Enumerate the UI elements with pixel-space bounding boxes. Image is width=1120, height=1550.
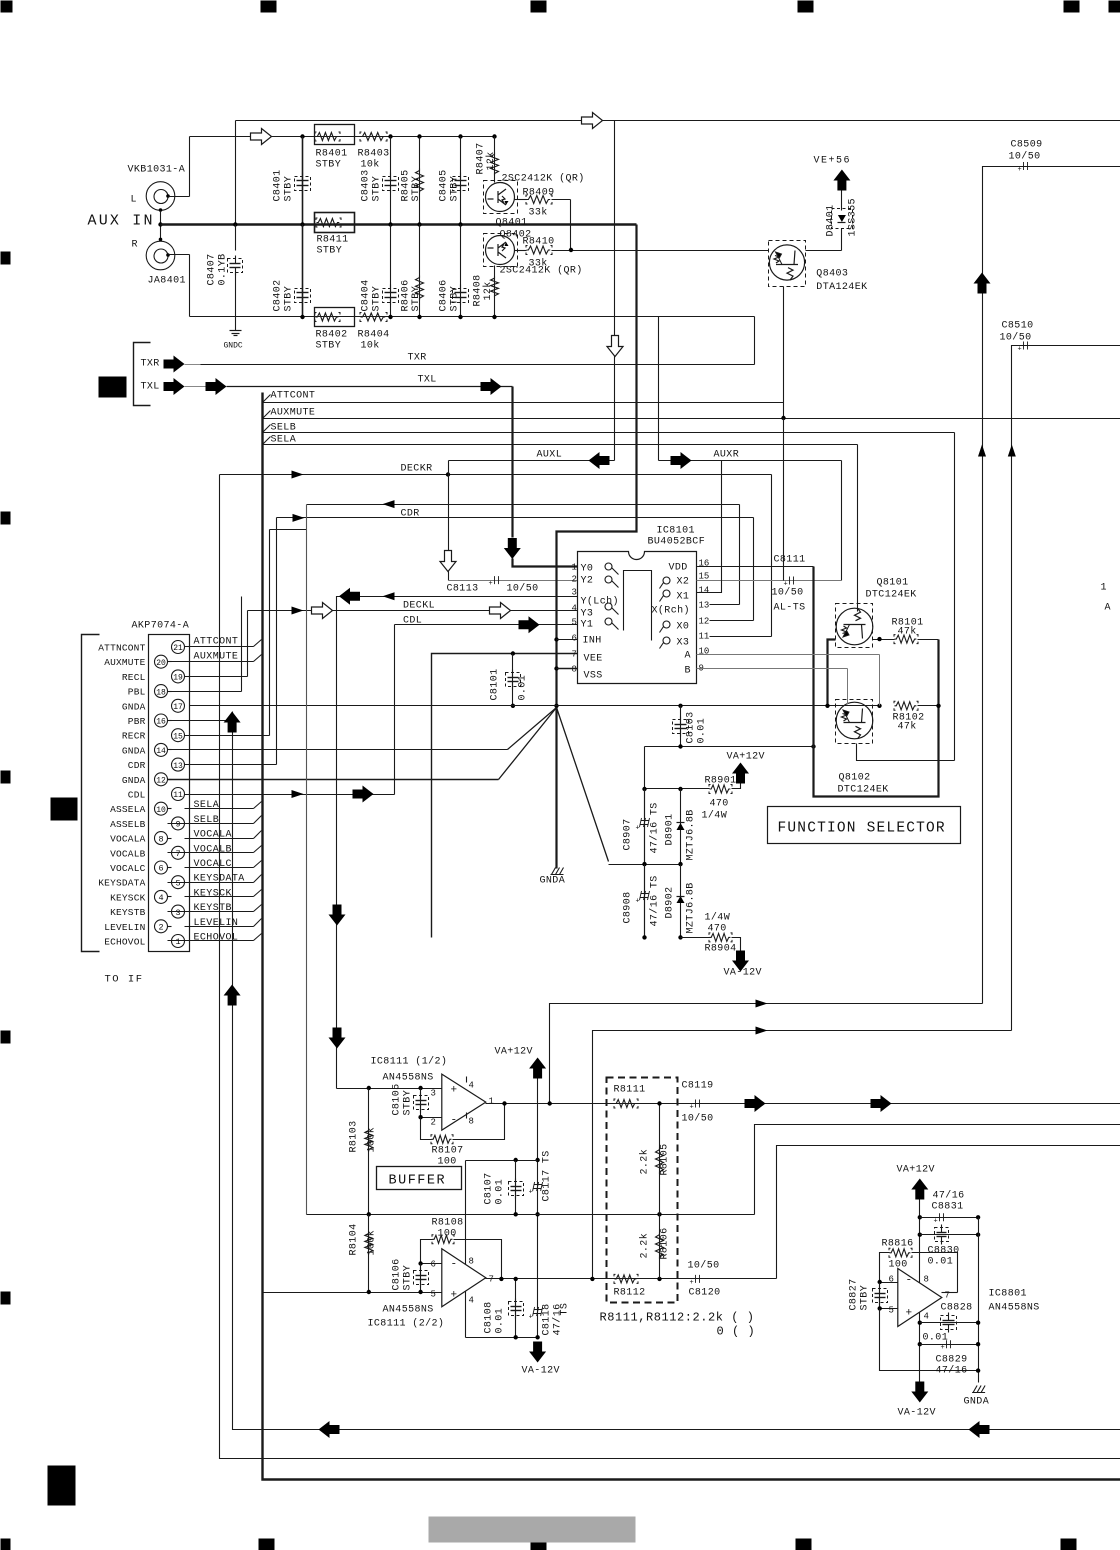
wire riser x753 to IC pin12 [753, 518, 755, 621]
connector pin 19 RECL [172, 670, 185, 683]
IC8101 common bar [624, 571, 652, 641]
svg-text:Q8101: Q8101 [877, 578, 909, 589]
svg-text:6: 6 [431, 1260, 436, 1270]
svg-text:5: 5 [431, 1290, 436, 1300]
svg-text:C8107: C8107 [484, 1172, 495, 1204]
arrow down VA-12V buffer [529, 1342, 546, 1363]
svg-text:0.01: 0.01 [495, 1179, 506, 1205]
resistor R8406 [417, 222, 421, 226]
svg-text:47/16: 47/16 [936, 1365, 968, 1377]
arrow TXL at bracket [164, 378, 185, 395]
capacitor C8118 [533, 1307, 543, 1316]
svg-text:100: 100 [438, 1157, 457, 1168]
connector pin 3 KEYSTB [172, 905, 185, 918]
svg-text:1: 1 [572, 563, 577, 573]
box FUNCTION SELECTOR [768, 807, 961, 844]
svg-text:TXR: TXR [408, 353, 427, 364]
svg-text:D8902: D8902 [665, 886, 676, 918]
svg-text:VKB1031-A: VKB1031-A [128, 165, 186, 176]
registration mark left y770 [1, 771, 11, 784]
svg-text:C8403: C8403 [361, 169, 372, 201]
svg-text:VA-12V: VA-12V [898, 1408, 936, 1419]
svg-text:0.01: 0.01 [923, 1333, 949, 1344]
svg-text:R8106: R8106 [660, 1227, 671, 1259]
bold rail VDD x813 [814, 567, 939, 797]
svg-text:7: 7 [572, 650, 577, 660]
svg-text:R8107: R8107 [432, 1146, 464, 1157]
wire TXR riser to AUX bottom bus [754, 317, 756, 365]
svg-text:ASSELA: ASSELA [110, 804, 146, 815]
svg-text:R8904: R8904 [705, 944, 737, 955]
wire pin13 CDR riser [185, 764, 277, 766]
svg-text:AUXMUTE: AUXMUTE [194, 652, 239, 663]
arrow AUXR [671, 452, 692, 469]
registration mark top-left [1, 1, 13, 13]
svg-text:STBY: STBY [284, 286, 295, 312]
svg-text:+: + [690, 1104, 694, 1112]
svg-text:STBY: STBY [372, 176, 383, 202]
resistor R8102 [895, 702, 917, 710]
svg-text:KEYSDATA: KEYSDATA [98, 878, 145, 889]
wire pin15 RECR riser [185, 735, 270, 737]
svg-text:4: 4 [469, 1081, 474, 1091]
svg-text:11: 11 [699, 632, 710, 642]
svg-text:VA-12V: VA-12V [522, 1366, 560, 1377]
connector pin 4 KEYSCK [155, 890, 168, 903]
wire stub VOCALB [168, 852, 254, 854]
svg-text:Y(Lch): Y(Lch) [581, 596, 619, 608]
gray footer box [429, 1517, 636, 1543]
svg-text:4: 4 [158, 893, 163, 903]
registration mark top x262 [261, 1, 277, 13]
arrow up VE+56 [833, 170, 850, 191]
capacitor C8827 [879, 1283, 881, 1309]
svg-text:2.2k: 2.2k [639, 1233, 651, 1259]
arrow TXL right [481, 378, 502, 395]
svg-text:47k: 47k [898, 721, 917, 733]
wire op IC8801 - input [880, 1282, 898, 1284]
svg-text:5: 5 [889, 1306, 894, 1316]
vertical riser x306 grey [306, 505, 308, 1215]
wire jack L to riser [169, 196, 190, 198]
svg-text:C8407: C8407 [207, 253, 218, 285]
transistor Q8101 [836, 604, 873, 648]
ground GNDC [230, 330, 242, 332]
svg-text:R8405: R8405 [401, 169, 412, 201]
resistor R8101 [873, 639, 895, 641]
bus vertical bold x262 [263, 393, 1120, 1480]
svg-text:C8830: C8830 [928, 1246, 960, 1257]
svg-text:IC8111 (2/2): IC8111 (2/2) [368, 1318, 445, 1330]
svg-text:11: 11 [173, 791, 183, 800]
svg-text:KEYSTB: KEYSTB [110, 907, 146, 918]
svg-text:8: 8 [924, 1275, 929, 1285]
svg-text:+: + [690, 1279, 694, 1287]
svg-text:47/16 TS: 47/16 TS [649, 875, 661, 926]
wire op2 output [486, 1278, 777, 1280]
wire op1 output [486, 1103, 1120, 1105]
svg-text:BU4052BCF: BU4052BCF [648, 537, 706, 548]
svg-text:AN4558NS: AN4558NS [383, 1305, 434, 1316]
svg-text:IC8101: IC8101 [657, 526, 695, 537]
connector pin 17 GNDA [172, 699, 185, 712]
svg-text:R8901: R8901 [705, 776, 737, 787]
svg-text:10/50: 10/50 [682, 1113, 714, 1125]
ground GNDA main [551, 868, 564, 875]
wire op IC8801 output [942, 1292, 958, 1294]
svg-text:PBL: PBL [128, 687, 146, 698]
wire feed y1003 [550, 1004, 983, 1104]
wire pin18 PBL riser [168, 691, 242, 693]
svg-text:GNDC: GNDC [224, 342, 243, 351]
svg-text:SELB: SELB [271, 423, 297, 434]
junction ground bus at y705 [554, 704, 558, 708]
svg-text:R8410: R8410 [523, 237, 555, 248]
svg-text:R8816: R8816 [882, 1239, 914, 1250]
resistor R8411 [315, 213, 355, 233]
svg-text:+: + [451, 1290, 458, 1302]
svg-text:+: + [1018, 346, 1022, 354]
svg-text:20: 20 [156, 659, 166, 668]
svg-text:ECHOVOL: ECHOVOL [194, 933, 239, 944]
connector pin 11 CDL [172, 788, 185, 801]
svg-text:10/50: 10/50 [1000, 332, 1032, 344]
svg-text:Y2: Y2 [581, 576, 594, 587]
svg-text:47/16: 47/16 [933, 1190, 965, 1202]
connector pin 1 ECHOVOL [172, 935, 185, 948]
svg-text:R8404: R8404 [358, 330, 390, 341]
svg-text:STBY: STBY [450, 286, 461, 312]
svg-text:C8106: C8106 [392, 1258, 403, 1290]
resistor R8410 [515, 250, 527, 252]
svg-text:R8411: R8411 [317, 235, 349, 246]
svg-text:R8409: R8409 [523, 188, 555, 199]
junction VSS [554, 666, 558, 670]
arrow right on y1030 [756, 1027, 768, 1035]
svg-text:1/4W: 1/4W [702, 810, 728, 822]
svg-text:VE+56: VE+56 [814, 156, 852, 167]
wire op2 + input [263, 1292, 442, 1294]
arrow AUXL [589, 452, 610, 469]
wire left branch x644 [644, 747, 646, 938]
svg-text:C8108: C8108 [484, 1301, 495, 1333]
resistor R8409 [515, 199, 527, 201]
registration mark top x797 [798, 1, 814, 13]
svg-text:0.01: 0.01 [928, 1257, 954, 1268]
connector pin 8 VOCALA [155, 832, 168, 845]
open arrow DECKL 1 [312, 603, 333, 619]
svg-text:C8101: C8101 [490, 668, 501, 700]
svg-text:C8120: C8120 [689, 1288, 721, 1299]
svg-text:VA+12V: VA+12V [495, 1047, 533, 1058]
connector pin 12 GNDA [155, 773, 168, 786]
wire bottom rail y936.9 [642, 935, 646, 939]
svg-text:14: 14 [699, 586, 710, 596]
resistor R8407 [492, 134, 496, 138]
open arrow DECKL 2 [490, 603, 511, 619]
svg-text:RECL: RECL [122, 672, 146, 683]
svg-text:X1: X1 [677, 592, 690, 603]
wire output2 to right riser [777, 1146, 1120, 1279]
svg-text:12k: 12k [482, 281, 494, 300]
svg-text:6: 6 [572, 634, 577, 644]
connector pin 7 VOCALB [172, 846, 185, 859]
arrow down VA-12V R8904 [732, 951, 749, 972]
arrow TXL mid [206, 378, 227, 395]
resistor R8112 [615, 1275, 637, 1283]
svg-text:47k: 47k [898, 626, 917, 638]
svg-text:D8901: D8901 [665, 813, 676, 845]
svg-text:A: A [685, 651, 691, 662]
open arrow on top bus [582, 113, 603, 129]
wire + input to ground rail [880, 1309, 979, 1371]
svg-text:3: 3 [431, 1089, 436, 1099]
transistor Q8402 [484, 234, 518, 267]
arrow right on y1003 [756, 1000, 768, 1008]
wire SELA riser to Q8101 [857, 445, 859, 612]
capacitor C8830 [920, 1234, 979, 1236]
wire op IC8801 + input [880, 1308, 898, 1310]
svg-text:ATTCONT: ATTCONT [194, 637, 239, 648]
svg-text:2: 2 [572, 575, 577, 585]
arrow up small on x1011 [1008, 445, 1016, 457]
wire pin19 RECL to DECKL riser [185, 676, 248, 678]
svg-text:10/50: 10/50 [1009, 151, 1041, 163]
open arrow on second bus [251, 129, 272, 145]
wire stub SELA [185, 808, 254, 810]
wire pin A to Q8102 [697, 654, 880, 656]
svg-text:C8117 TS: C8117 TS [542, 1150, 553, 1201]
connector AKP7074-A box [149, 635, 190, 952]
svg-text:12: 12 [156, 777, 166, 786]
wire pin12 GNDA [168, 779, 499, 781]
wire op2 output junction to C8108 [514, 1277, 518, 1281]
svg-text:L: L [131, 195, 137, 206]
svg-text:15: 15 [173, 732, 183, 741]
wire stub VOCALC [185, 867, 254, 869]
connector pin 18 PBL [155, 685, 168, 698]
svg-text:VSS: VSS [584, 671, 603, 682]
svg-text:C8510: C8510 [1002, 321, 1034, 332]
wire CDR riser to IC pin13 [739, 505, 741, 605]
wire bottom line y1457 right part [0, 0, 2, 2]
svg-text:X2: X2 [677, 577, 690, 588]
junction INH [554, 637, 558, 641]
capacitor C8117 [533, 1182, 543, 1191]
wire SELB riser x953.5 [954, 433, 956, 761]
connector JA8401 jack R [146, 241, 175, 270]
svg-text:10k: 10k [361, 159, 380, 171]
svg-text:R8402: R8402 [316, 330, 348, 341]
svg-text:X(Rch): X(Rch) [652, 605, 690, 617]
svg-text:AUXMUTE: AUXMUTE [271, 408, 316, 419]
svg-text:C8827: C8827 [849, 1278, 860, 1310]
arrow TXR [164, 356, 185, 373]
svg-text:R8407: R8407 [476, 142, 487, 174]
svg-text:4: 4 [572, 604, 577, 614]
rail x537.1 [537, 1079, 539, 1339]
capacitor C8113 [448, 572, 450, 581]
svg-text:AL-TS: AL-TS [774, 603, 806, 614]
svg-text:8: 8 [469, 1117, 474, 1127]
svg-text:DTA124EK: DTA124EK [816, 282, 867, 293]
svg-text:CDL: CDL [128, 790, 146, 801]
svg-text:C8907: C8907 [623, 818, 634, 850]
svg-text:LEVELIN: LEVELIN [194, 918, 239, 929]
svg-text:16: 16 [156, 718, 166, 727]
svg-text:R8401: R8401 [316, 149, 348, 160]
svg-text:+: + [934, 1217, 938, 1225]
op-amp IC8801 [898, 1269, 942, 1327]
vertical x231.6 with up arrows [233, 712, 1120, 1430]
wire VDD pin16 to C8111 rail [697, 566, 814, 568]
diode D8901 zener [680, 789, 682, 865]
svg-text:10/50: 10/50 [507, 583, 539, 595]
svg-text:100k: 100k [366, 1230, 378, 1256]
svg-text:+: + [529, 1189, 533, 1197]
svg-text:14: 14 [156, 747, 166, 756]
wire bottom bus y316.5 [190, 316, 755, 318]
svg-text:A: A [1105, 603, 1111, 614]
registration mark bottom-left corner [1, 1539, 11, 1550]
wire Q8101 emitter bold [828, 640, 836, 706]
capacitor C8403 [388, 134, 392, 138]
svg-text:SELA: SELA [194, 800, 220, 811]
svg-text:STBY: STBY [450, 176, 461, 202]
svg-text:4: 4 [469, 1296, 474, 1306]
svg-text:+: + [1018, 166, 1022, 174]
svg-text:Q8401: Q8401 [496, 218, 528, 229]
svg-text:STBY: STBY [316, 160, 342, 171]
resistor R8904 [710, 933, 731, 941]
svg-text:18: 18 [156, 688, 166, 697]
wire AUXL riser x614 [614, 121, 616, 461]
svg-text:33k: 33k [529, 258, 548, 270]
wire long ground line y705.3 pin17 [190, 705, 880, 707]
svg-text:AUXR: AUXR [714, 450, 740, 461]
svg-text:JA8401: JA8401 [148, 276, 186, 287]
rail x977.6 ground IC8801 [978, 1218, 980, 1383]
connector pin 2 LEVELIN [155, 920, 168, 933]
wire y529 link [270, 529, 307, 531]
svg-text:+: + [489, 580, 493, 588]
svg-text:GNDA: GNDA [540, 876, 566, 887]
connector pin 5 KEYSDATA [172, 876, 185, 889]
svg-text:Y0: Y0 [581, 564, 594, 575]
svg-text:C8401: C8401 [273, 169, 284, 201]
wire DECKR vertical x218.7 [220, 475, 1120, 1459]
arrow up small on x981 [978, 445, 986, 457]
svg-text:1/4W: 1/4W [705, 912, 731, 924]
rail x919.3 IC8801 [919, 1200, 921, 1383]
svg-text:C8111: C8111 [774, 555, 806, 566]
arrow left on y1429 b [969, 1421, 990, 1438]
svg-text:12: 12 [699, 617, 710, 627]
svg-text:DTC124EK: DTC124EK [838, 785, 889, 796]
connector pin 20 AUXMUTE [155, 655, 168, 668]
wire Q8102 collector to SELB riser [857, 744, 955, 761]
svg-text:AKP7074-A: AKP7074-A [132, 621, 190, 632]
wire R8901 rail y788.5 [645, 788, 710, 790]
svg-text:C8118: C8118 [542, 1303, 553, 1335]
svg-text:R8105: R8105 [660, 1143, 671, 1175]
arrow buffer feed small [383, 592, 395, 600]
svg-text:VOCALA: VOCALA [110, 834, 146, 845]
svg-text:C8405: C8405 [439, 169, 450, 201]
svg-text:DECKL: DECKL [403, 601, 435, 612]
wire second bus y136 [190, 136, 495, 138]
svg-text:STBY: STBY [284, 176, 295, 202]
arrow up VA+12V R8901 [732, 763, 749, 784]
arrow up VA+12V buffer [529, 1058, 546, 1079]
arrow left on y1429 a [319, 1421, 340, 1438]
svg-text:0.01: 0.01 [495, 1308, 506, 1334]
svg-text:MZTJ6.8B: MZTJ6.8B [686, 809, 697, 860]
svg-text:KEYSTB: KEYSTB [194, 903, 232, 914]
svg-text:C8831: C8831 [932, 1202, 964, 1213]
wire CDL riser x394.5 [394, 625, 396, 795]
svg-text:BUFFER: BUFFER [389, 1174, 447, 1189]
arrow CDL big [519, 616, 540, 633]
connector pin 6 VOCALC [155, 861, 168, 874]
svg-text:LEVELIN: LEVELIN [104, 922, 145, 933]
wire pin14 X1 riser x721 [697, 461, 722, 593]
arrow buffer feed big [339, 588, 360, 605]
svg-text:-: - [451, 1115, 458, 1127]
registration mark top x532 [531, 1, 547, 13]
connector pin 16 PBR [155, 714, 168, 727]
svg-text:2: 2 [158, 923, 163, 933]
wire R8409 down to base line [570, 200, 572, 251]
svg-text:0.1YB: 0.1YB [218, 253, 229, 285]
wire pin14 GNDA [168, 749, 508, 751]
svg-text:AUX IN: AUX IN [88, 213, 155, 230]
svg-text:1: 1 [175, 937, 180, 947]
svg-text:7: 7 [489, 1275, 494, 1285]
svg-text:TXR: TXR [141, 359, 160, 370]
svg-text:C8113: C8113 [447, 584, 479, 595]
svg-text:VDD: VDD [669, 563, 688, 574]
svg-text:VA+12V: VA+12V [897, 1165, 935, 1176]
svg-text:13: 13 [699, 601, 710, 611]
capacitor C8908 [644, 865, 646, 938]
arrow up VA+12V IC8801 [911, 1179, 928, 1200]
wire pin11 CDL [185, 794, 395, 796]
svg-text:Q8102: Q8102 [839, 773, 871, 784]
registration mark bottom x258 [259, 1539, 275, 1550]
wire top feed bus y120 [236, 120, 1120, 122]
svg-text:33k: 33k [529, 207, 548, 219]
svg-text:5: 5 [572, 618, 577, 628]
svg-text:IC8111 (1/2): IC8111 (1/2) [371, 1056, 448, 1068]
alignment square mid-left [51, 798, 78, 821]
wire second CDR line y517.4 [277, 517, 754, 519]
resistor R8103 [368, 1089, 370, 1215]
wire x464.6 branch [465, 1161, 467, 1338]
svg-text:RECR: RECR [122, 731, 146, 742]
junction DECKR/C8113 [446, 472, 450, 476]
svg-text:DTC124EK: DTC124EK [866, 590, 917, 601]
open arrow down on AUXL riser [607, 336, 623, 357]
svg-text:+: + [529, 1314, 533, 1322]
svg-text:470: 470 [708, 924, 727, 935]
resistor R8404 [361, 313, 386, 321]
svg-text:Y1: Y1 [581, 620, 594, 631]
svg-text:AN4558NS: AN4558NS [383, 1073, 434, 1084]
wire mid rail y863.6 [609, 864, 681, 866]
svg-text:C8828: C8828 [941, 1303, 973, 1314]
svg-text:VOCALC: VOCALC [110, 863, 146, 874]
